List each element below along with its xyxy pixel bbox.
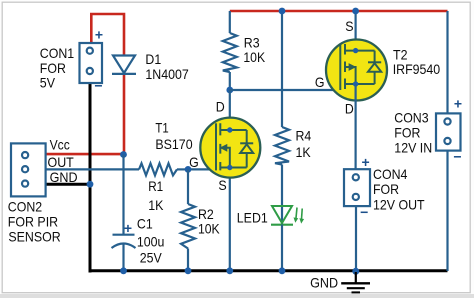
svg-text:FOR: FOR bbox=[394, 125, 420, 141]
svg-text:C1: C1 bbox=[137, 215, 153, 231]
svg-text:CON3: CON3 bbox=[394, 110, 428, 126]
node LED1 to ground rail bbox=[279, 267, 286, 274]
capacitor C1 100u 25V bbox=[112, 155, 165, 272]
wire T1 drain lead (blue) bbox=[229, 90, 231, 130]
wire CON2 GND line (black) bbox=[45, 183, 91, 186]
node Vcc junction (D1/C1/Vcc) bbox=[120, 151, 127, 158]
svg-text:CON2: CON2 bbox=[8, 198, 43, 214]
svg-text:+: + bbox=[95, 27, 103, 43]
svg-text:S: S bbox=[218, 177, 226, 193]
svg-text:LED1: LED1 bbox=[237, 209, 268, 225]
node C1 to ground rail bbox=[120, 267, 127, 274]
wire CON4 minus to ground rail (blue) bbox=[355, 206, 357, 271]
svg-text:10K: 10K bbox=[243, 49, 265, 65]
wire D1 cathode to Vcc node (red) bbox=[123, 74, 126, 157]
svg-text:R1: R1 bbox=[148, 178, 163, 194]
wire LED1 cathode to ground rail (blue) bbox=[281, 225, 283, 272]
svg-text:FOR: FOR bbox=[373, 181, 399, 197]
connector CON4 bbox=[344, 154, 425, 220]
connector CON1 bbox=[40, 27, 103, 94]
connector CON3 bbox=[394, 96, 462, 165]
resistor R1 1K bbox=[139, 163, 188, 213]
svg-text:S: S bbox=[345, 18, 353, 34]
wire ground rail (black) bbox=[89, 269, 448, 272]
node R4 to +12V rail bbox=[279, 8, 286, 15]
wire T2 source lead (blue) bbox=[355, 11, 357, 51]
svg-text:GND: GND bbox=[50, 169, 78, 185]
wire CON1 minus to ground rail (black) bbox=[89, 82, 92, 273]
svg-text:+: + bbox=[454, 96, 462, 112]
svg-text:R4: R4 bbox=[296, 128, 312, 144]
svg-text:R3: R3 bbox=[244, 35, 260, 51]
node CON4 to ground rail bbox=[352, 268, 359, 275]
wire T1 source lead (blue) bbox=[229, 168, 231, 272]
node T2 source to +12V rail bbox=[352, 8, 359, 15]
svg-text:+: + bbox=[124, 220, 132, 236]
svg-text:1K: 1K bbox=[296, 144, 312, 160]
wire T2 drain to CON4 (blue) bbox=[355, 84, 357, 169]
wire +12V top rail (red) bbox=[230, 10, 448, 13]
svg-text:IRF9540: IRF9540 bbox=[393, 61, 441, 77]
ground bbox=[310, 272, 370, 292]
svg-text:SENSOR: SENSOR bbox=[8, 229, 60, 245]
svg-text:25V: 25V bbox=[140, 250, 163, 266]
svg-text:+: + bbox=[362, 154, 370, 170]
svg-text:T2: T2 bbox=[393, 46, 408, 62]
svg-text:5V: 5V bbox=[40, 75, 56, 91]
svg-text:1N4007: 1N4007 bbox=[145, 66, 189, 82]
svg-text:12V OUT: 12V OUT bbox=[373, 196, 425, 212]
connector CON2 bbox=[8, 137, 78, 245]
wire CON1 plus to D1 anode (red) bbox=[91, 14, 124, 56]
svg-text:G: G bbox=[315, 74, 325, 90]
resistor R2 10K bbox=[181, 169, 220, 271]
svg-text:−: − bbox=[360, 204, 368, 220]
node R2 to ground rail bbox=[185, 267, 192, 274]
svg-text:12V IN: 12V IN bbox=[394, 139, 432, 155]
node T1 source to ground rail bbox=[226, 267, 233, 274]
transistor T1 BS170 (N-MOSFET) bbox=[155, 99, 260, 194]
wire +12V rail to CON3 (blue) bbox=[446, 11, 448, 113]
svg-text:GND: GND bbox=[310, 275, 338, 291]
wire T1 gate lead (blue) bbox=[188, 168, 216, 170]
svg-text:FOR PIR: FOR PIR bbox=[8, 214, 58, 230]
LED LED1 bbox=[237, 206, 304, 225]
svg-text:CON1: CON1 bbox=[40, 45, 75, 61]
resistor R3 10K bbox=[223, 11, 266, 90]
node G at T1 gate bbox=[185, 154, 199, 173]
svg-text:D: D bbox=[345, 101, 354, 117]
svg-text:1K: 1K bbox=[148, 197, 164, 213]
svg-text:OUT: OUT bbox=[48, 154, 75, 170]
transistor T2 IRF9540 (P-MOSFET) bbox=[315, 18, 440, 117]
svg-text:−: − bbox=[94, 78, 102, 94]
svg-text:FOR: FOR bbox=[40, 60, 66, 76]
svg-text:D: D bbox=[216, 99, 225, 115]
svg-text:BS170: BS170 bbox=[155, 136, 192, 152]
svg-text:−: − bbox=[453, 149, 461, 165]
wire Vcc line CON2 to node (red) bbox=[45, 153, 124, 156]
node CON2 GND to CON1 wire junction bbox=[87, 181, 94, 188]
svg-text:G: G bbox=[189, 154, 199, 170]
svg-text:10K: 10K bbox=[198, 221, 220, 237]
wire CON2 OUT line (blue) bbox=[45, 168, 139, 170]
wire T2 gate line (blue) bbox=[230, 89, 340, 91]
wire CON3 minus to ground rail (blue) bbox=[446, 151, 448, 271]
diode D1 1N4007 bbox=[112, 51, 189, 82]
node T1 drain / R3 / T2 gate junction bbox=[226, 87, 233, 94]
svg-text:CON4: CON4 bbox=[373, 166, 408, 182]
resistor R4 1K bbox=[275, 11, 311, 207]
svg-text:Vcc: Vcc bbox=[50, 137, 70, 153]
svg-text:D1: D1 bbox=[145, 51, 161, 67]
svg-text:T1: T1 bbox=[155, 120, 168, 136]
svg-text:100u: 100u bbox=[137, 233, 165, 249]
